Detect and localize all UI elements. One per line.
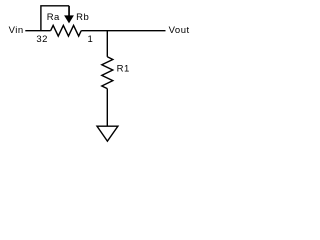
svg-text:32: 32 xyxy=(36,34,48,45)
potentiometer resistor body Ra/Rb xyxy=(51,25,82,36)
wire wiper tie bracket (terminal to wiper) xyxy=(41,6,69,31)
svg-text:Vin: Vin xyxy=(9,25,24,36)
wire Vin to potentiometer xyxy=(25,30,50,32)
wiper arrow xyxy=(64,15,74,23)
svg-text:Rb: Rb xyxy=(76,12,89,23)
wire potentiometer to Vout xyxy=(81,30,165,32)
wire node to R1 xyxy=(106,31,108,57)
resistor R1 xyxy=(102,57,113,89)
wire R1 to ground xyxy=(106,89,108,127)
svg-text:Ra: Ra xyxy=(47,12,60,23)
ground xyxy=(97,126,118,141)
svg-text:R1: R1 xyxy=(117,64,130,75)
svg-text:1: 1 xyxy=(88,34,94,45)
svg-text:Vout: Vout xyxy=(169,25,190,36)
wire wiper stem xyxy=(68,6,70,16)
